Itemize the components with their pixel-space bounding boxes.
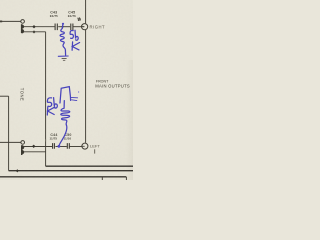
wire to RIGHT connector	[73, 26, 84, 28]
wire vertical x=8.6	[8, 96, 10, 171]
node connector circle bottom	[21, 141, 25, 145]
blue flag dashes	[71, 97, 78, 100]
blue annotation top group	[58, 23, 79, 57]
junction diamond J4	[16, 169, 19, 172]
handwritten 5b bottom	[47, 98, 51, 107]
capacitor C43	[55, 24, 57, 31]
wire between C44 C46	[55, 146, 66, 148]
connector B1 bar	[21, 24, 23, 33]
handwritten K top	[72, 42, 80, 50]
bracket drop right	[125, 177, 127, 180]
blue dot top	[62, 23, 64, 25]
wire input bottom	[0, 141, 21, 143]
wire bottom bus A	[46, 165, 133, 167]
connector B2 pin bumps	[22, 146, 24, 154]
wire lower branch	[24, 31, 46, 33]
mark near RIGHT vertical	[78, 17, 81, 21]
paper background	[0, 0, 133, 180]
junction diamond J3	[32, 145, 35, 148]
capacitor C45	[71, 24, 73, 31]
handwritten K bottom	[47, 107, 55, 115]
wire C46 to LEFT connector	[70, 146, 82, 148]
handwritten 5b top	[70, 31, 73, 39]
blue blob on wire	[58, 145, 61, 148]
bracket drop left	[101, 177, 103, 180]
wire vertical right x=85.6	[85, 30, 87, 143]
connector B1 pin bumps	[22, 25, 24, 33]
ground symbol bars	[62, 59, 67, 61]
wire bottom bus B	[9, 170, 133, 172]
connector B2 bar	[21, 145, 23, 155]
wire tone stub	[0, 95, 9, 97]
wire vertical top x=85.6	[85, 0, 87, 23]
tick inside LEFT circle	[82, 145, 85, 147]
junction diamond J1	[32, 25, 35, 28]
wire vertical long x=45.6	[45, 32, 47, 166]
capacitor C44	[53, 143, 55, 149]
blue ground bar	[58, 55, 68, 57]
tick inside RIGHT circle	[82, 26, 85, 28]
wire lower pin branch bottom	[24, 151, 46, 153]
blue spring squiggle bottom	[61, 101, 70, 125]
paper texture noise	[0, 0, 1, 1]
blue annotation bottom group	[47, 87, 79, 148]
blue spring squiggle top	[60, 25, 66, 55]
node connector circle top	[21, 20, 25, 24]
wire mid segment	[58, 26, 70, 28]
capacitor C46	[67, 143, 69, 149]
junction dot midpoint caps top	[62, 26, 64, 28]
wire bottom bus C	[0, 176, 126, 178]
faint tick above bottom wire crossing	[45, 139, 47, 142]
connector circle LEFT	[82, 143, 88, 149]
blue speck	[78, 91, 79, 92]
pin stub below LEFT label	[94, 149, 96, 153]
blue flag rectangle	[60, 87, 71, 103]
wire bottom branch to caps	[24, 146, 52, 148]
junction diamond J2	[32, 30, 35, 33]
blue tail to wire	[59, 125, 66, 145]
wire top branch	[24, 26, 55, 28]
connector circle RIGHT	[82, 24, 88, 30]
wire input top	[0, 20, 21, 22]
